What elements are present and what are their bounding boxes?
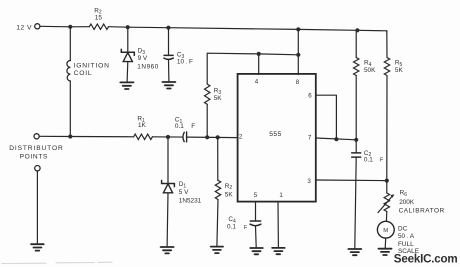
inductor L1 ignition coil [69,27,71,61]
ground for D1 [161,247,174,253]
wire R3 top to pins 4 and 8 [207,53,298,84]
wire top supply rail [40,25,89,28]
svg-text:200K: 200K [399,199,415,206]
wire rail C3 node to right corner [168,28,386,31]
wire pin7 to R4 node [316,138,356,140]
wire points line to 555 pin2 [39,135,133,138]
svg-text:F: F [191,123,195,130]
node rail-R4 junction [355,28,359,32]
wire pin8 vertical from rail to 555 [297,29,299,74]
svg-text:50 . A: 50 . A [398,233,415,240]
svg-text:4: 4 [255,79,259,86]
node rail-coil junction [68,25,72,29]
wire pin3 to R6 node [316,179,387,182]
svg-text:2: 2 [239,134,243,141]
resistor R5 5K [386,31,388,58]
capacitor C4 0.1uF [250,221,261,226]
svg-text:SeekIC.com: SeekIC.com [394,252,458,265]
svg-text:M: M [383,228,388,234]
svg-text:1: 1 [279,192,283,199]
ground for pin1 [272,248,285,254]
svg-text:7: 7 [308,134,312,141]
svg-text:1K: 1K [138,122,147,129]
zener diode D3 1N960 [127,27,129,52]
svg-text:0.1: 0.1 [364,156,373,163]
node R3-points junction [205,135,209,139]
node pin4 junction [257,52,261,56]
ground for R2b [211,247,223,254]
ground for distributor points [31,244,44,250]
resistor R3 5K [205,84,210,104]
node coil-points junction [68,134,72,138]
resistor R4 50K [355,30,357,57]
node pin8 junction [296,53,300,57]
svg-text:F: F [244,225,248,231]
wire pin5 stub [255,202,257,221]
svg-text:IGNITION: IGNITION [74,63,110,70]
zener diode D1 1N5231 [167,137,169,183]
ground for D3 [120,82,133,89]
svg-text:12 V: 12 V [16,25,32,32]
svg-text:5K: 5K [395,67,404,74]
svg-text:15: 15 [95,15,103,22]
svg-text:5K: 5K [214,95,223,102]
svg-text:DISTRIBUTOR: DISTRIBUTOR [9,145,63,152]
wire lower terminal to ground [36,171,38,244]
svg-text:5 V: 5 V [179,189,189,196]
node pin7-R4-C2 junction [354,138,358,142]
node D1 junction [166,135,170,139]
svg-text:1N5231: 1N5231 [179,198,202,205]
node rail-D3 junction [126,25,130,29]
terminal distributor points lower [35,166,40,171]
wire rail R2 to D3 node [109,26,128,29]
svg-text:0.1: 0.1 [175,123,184,130]
svg-text:9 V: 9 V [138,55,148,62]
resistor R1 1K [134,134,153,139]
svg-text:POINTS: POINTS [20,153,48,160]
wire scan noise bottom [2,262,112,263]
wire pin1 to ground [277,202,279,247]
resistor R2 [89,24,108,29]
svg-text:R6: R6 [400,190,408,198]
resistor R2b 5K (lower) [217,137,219,180]
wire rail D3 node to C3 node [128,26,169,29]
capacitor C2 0.1uF [355,140,357,153]
node rail-pin8 junction [296,27,300,31]
ground for C2 [348,249,361,255]
svg-text:50K: 50K [364,67,376,74]
svg-text:R2: R2 [225,183,233,191]
svg-text:DC: DC [398,225,408,232]
potentiometer R6 200K calibrator [386,181,388,193]
capacitor C1 0.1uF [183,132,187,142]
svg-text:5: 5 [254,192,258,199]
terminal 12V input [35,24,40,29]
ground for C3 [162,82,175,89]
svg-text:555: 555 [269,131,281,138]
svg-text:1N960: 1N960 [137,63,159,70]
capacitor C3 10uF [168,28,170,55]
ground for meter [379,249,392,255]
wire pin4 stub [258,54,260,75]
svg-text:10 . F: 10 . F [177,59,193,66]
wire pin6 to pin7 tie [316,95,337,139]
node rail-C3 junction [166,26,170,30]
meter M1 [377,221,394,238]
svg-text:COIL: COIL [74,70,93,77]
svg-text:3: 3 [307,178,311,185]
svg-text:0.1: 0.1 [227,223,236,230]
wire rail corner into R5 [386,31,388,32]
op-amp U1 555 timer box [238,74,316,202]
svg-text:6: 6 [308,92,312,99]
svg-text:CALIBRATOR: CALIBRATOR [399,208,445,215]
node pin6-pin7 junction [334,137,338,141]
terminal distributor points upper [34,134,39,139]
node pin3-R5-R6 junction [385,179,389,183]
svg-text:8: 8 [296,79,300,86]
svg-text:5K: 5K [225,192,234,199]
svg-text:F: F [380,158,384,164]
ground for C4 [250,248,263,254]
node R2b-points junction [216,135,220,139]
